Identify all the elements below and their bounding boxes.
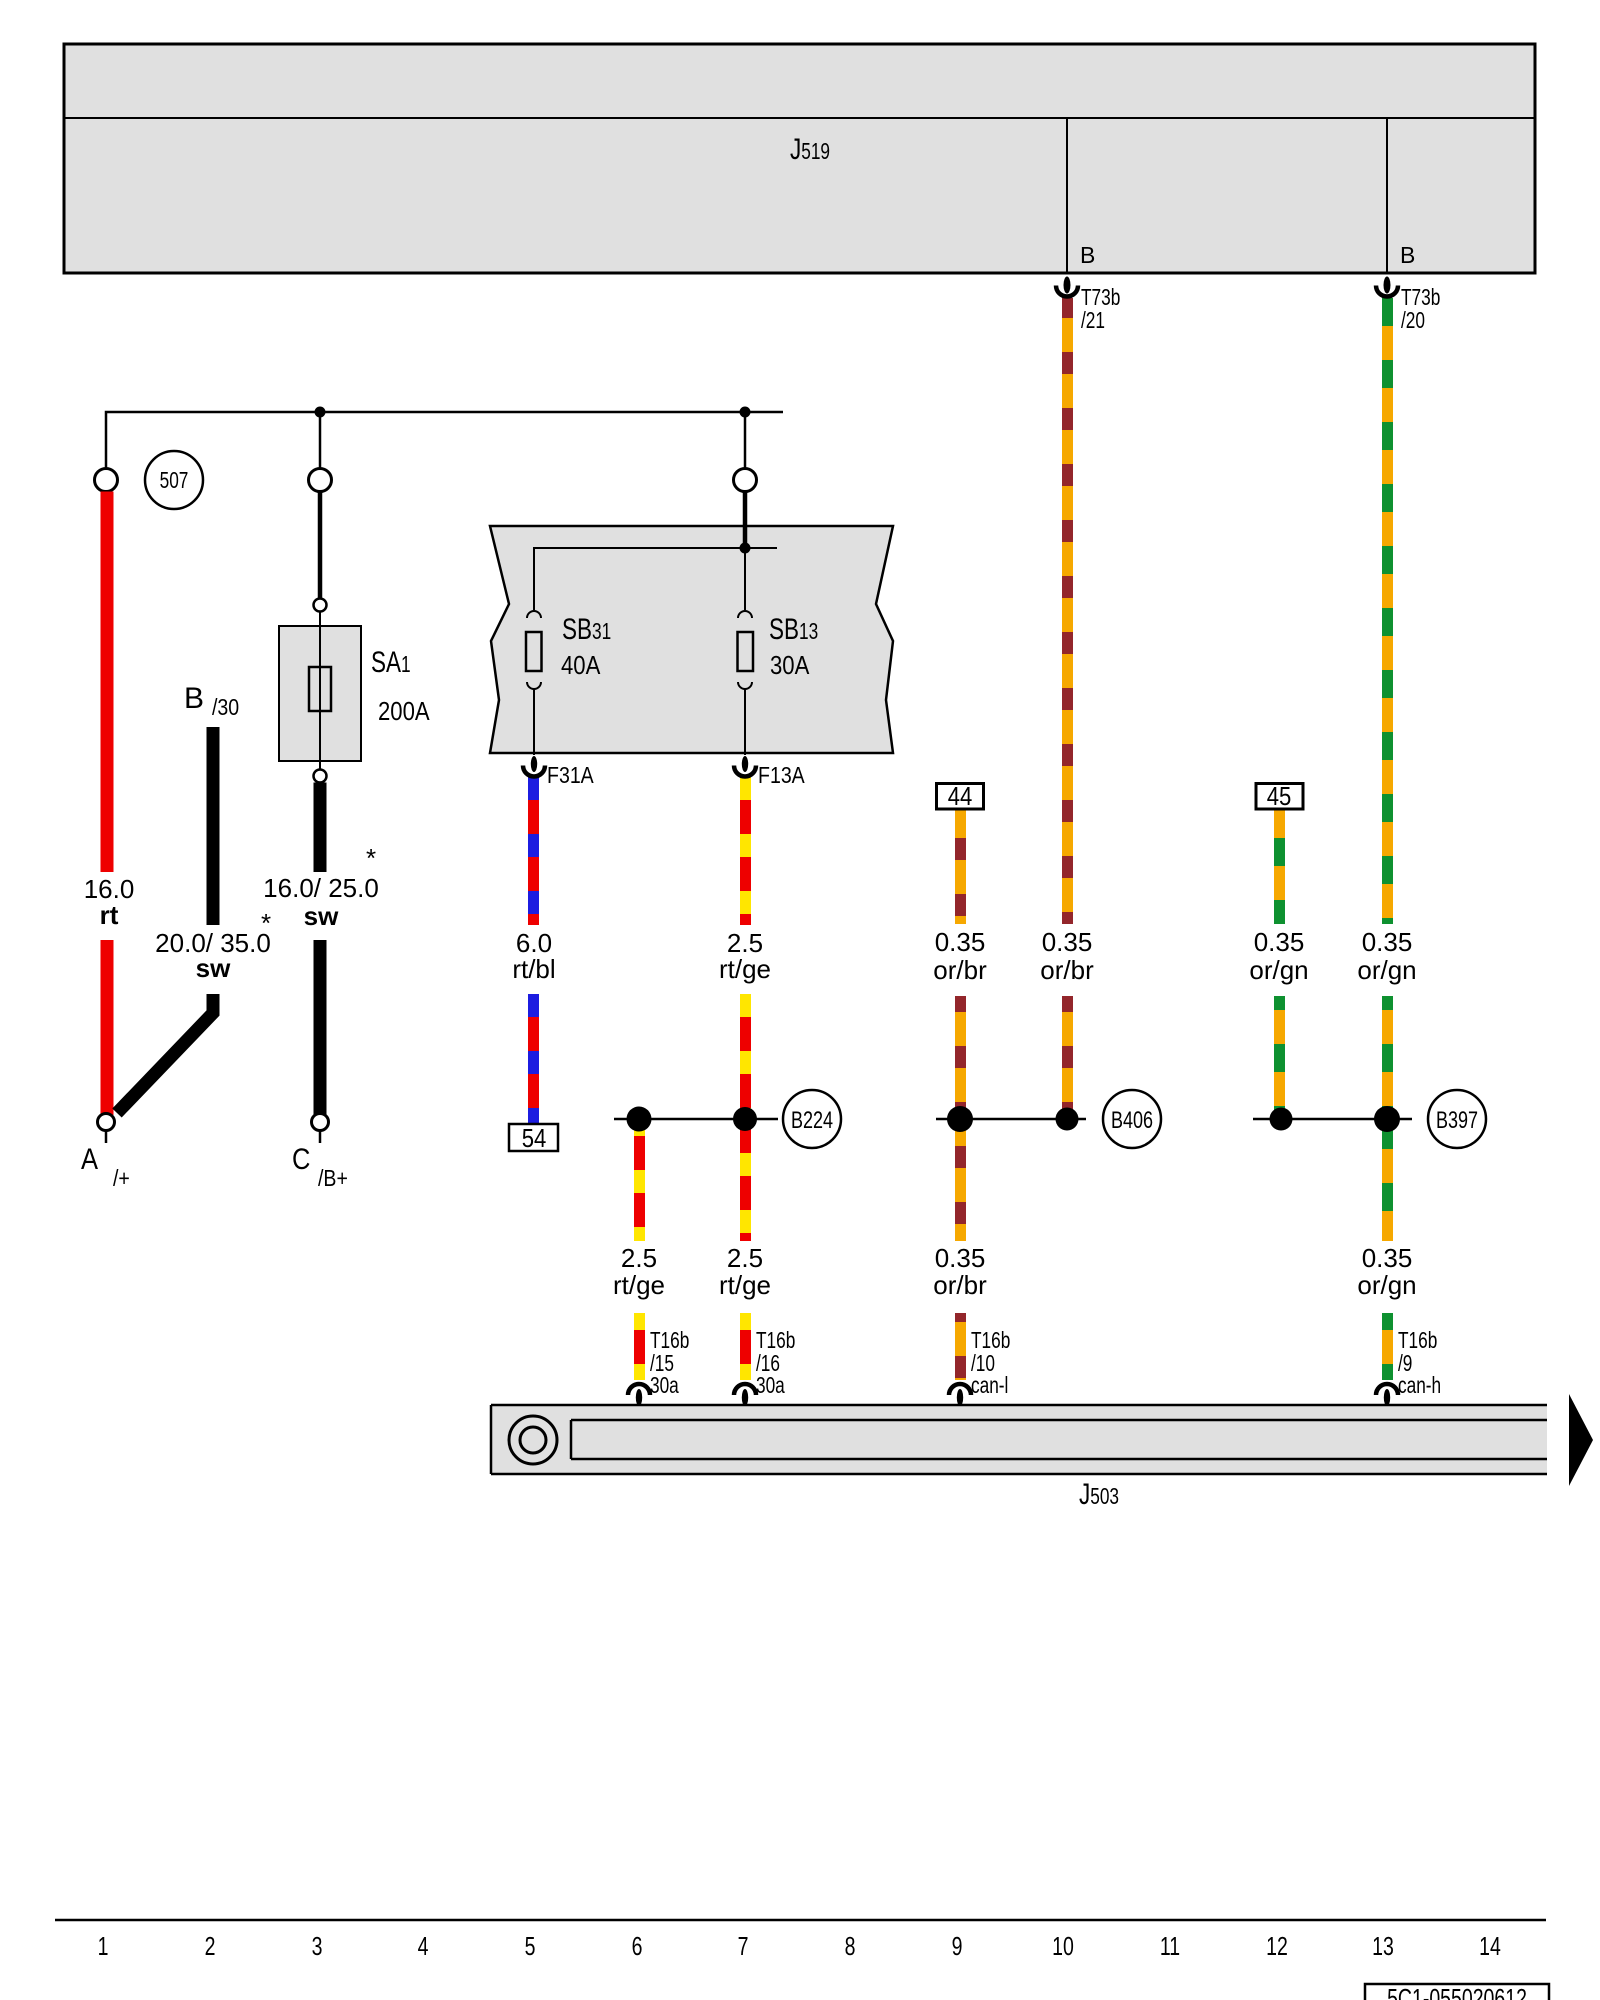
label SB13: [769, 615, 818, 645]
fuse SB13 lower lead: [744, 689, 746, 755]
connector F31A symbol: [531, 756, 537, 772]
wire 0.35 or/br col10 from J519 pin T73b/21: [1062, 298, 1073, 924]
label SA1: [371, 648, 411, 678]
terminal 44 box: [937, 784, 984, 810]
SA1 lower pin circle: [314, 770, 327, 783]
wire 0.35 or/gn col13 bottom segment to J503: [1382, 1313, 1393, 1380]
label F31A: [547, 764, 594, 787]
connector F13A symbol: [742, 756, 748, 772]
label wire 2.5 rt/ge col7: [727, 930, 763, 956]
label T16b/15 30a: [650, 1329, 689, 1352]
wire 16.0 rt lower segment: [101, 940, 114, 1115]
label J503: [1079, 1480, 1119, 1510]
label wire 0.35 or/gn col13 bottom: [1362, 1245, 1413, 1271]
wire 2.5 rt/ge col7 upper segment: [740, 777, 751, 925]
node B224 circle: [783, 1090, 841, 1148]
label B /30: [184, 684, 204, 714]
connector T16b/15 symbol: [628, 1384, 650, 1395]
J519 internal pin line B (left): [1066, 118, 1068, 273]
label wire 0.35 or/gn col13: [1362, 929, 1413, 955]
label wire 6.0 rt/bl: [516, 930, 552, 956]
label wire A gauge: [84, 876, 135, 902]
node B406 dot right: [1056, 1108, 1079, 1131]
fuse SB13 bottom clip: [738, 682, 752, 689]
terminal 45 box: [1256, 784, 1303, 810]
sheet number box: [1365, 1984, 1549, 2000]
node B224 dot left: [627, 1107, 652, 1132]
node B397 dot left: [1270, 1108, 1293, 1131]
wire 0.35 or/br col9 from terminal 44: [955, 809, 966, 924]
wire 16.0/25.0 sw lower segment: [314, 940, 327, 1115]
label T73b/20: [1401, 286, 1440, 309]
sheet number: [1387, 1985, 1527, 2000]
wire 0.35 or/gn col13 from J519 pin T73b/20: [1382, 298, 1393, 924]
fuse SB31 bottom clip: [527, 682, 541, 689]
SB internal feed line: [744, 526, 746, 610]
continuation arrow: [1569, 1394, 1593, 1486]
label wire 0.35 or/gn col12: [1254, 929, 1305, 955]
label F13A: [758, 764, 805, 787]
label wire 2.5 rt/ge col6 bottom: [621, 1245, 657, 1271]
node B397 circle: [1428, 1090, 1486, 1148]
wire 16.0/25.0 sw upper segment: [314, 783, 327, 873]
SB internal bus: [534, 548, 777, 610]
label node B224: [791, 1109, 833, 1133]
fuse SB31 lower lead: [533, 689, 535, 755]
node B224 junction line: [614, 1118, 778, 1121]
label T16b/10 can-l: [971, 1329, 1010, 1352]
wire 6.0 rt/bl upper segment: [528, 777, 539, 925]
junction on bus at col7: [740, 407, 751, 418]
terminal circle col3: [309, 469, 332, 492]
connector T16b/16 symbol: [734, 1384, 756, 1395]
fuse holder SB box: [490, 526, 893, 753]
node B397 dot right: [1374, 1106, 1400, 1132]
wire 2.5 rt/ge col7 below node B224: [740, 1119, 751, 1241]
label wire 2.5 rt/ge col7 bottom: [727, 1245, 763, 1271]
fuse SB31 top clip: [527, 611, 541, 618]
link wire to SA1: [318, 492, 323, 599]
wire 0.35 or/br col9 bottom segment to J503: [955, 1313, 966, 1380]
terminal A circle: [98, 1114, 115, 1131]
label T16b/16 30a: [756, 1329, 795, 1352]
fuse SB13 element: [738, 632, 754, 671]
terminal C circle: [312, 1114, 329, 1131]
SB13 feed thick lead: [743, 492, 748, 549]
stub to terminal circle col3: [319, 412, 322, 468]
J519 internal pin line B (right): [1386, 118, 1388, 273]
label terminal 44: [948, 783, 973, 809]
J503 inner rectangle: [571, 1419, 1547, 1422]
wire 20.0/35.0 sw upper segment: [207, 727, 220, 925]
wire 2.5 rt/ge col6 from node B224: [634, 1119, 645, 1241]
node B406 dot left: [947, 1106, 973, 1132]
label T73b/21: [1081, 286, 1120, 309]
node B224 dot right: [733, 1107, 757, 1131]
label wire 0.35 or/br col9: [935, 929, 986, 955]
connector T16b/10 symbol: [949, 1384, 971, 1395]
node B406 circle: [1103, 1090, 1161, 1148]
SA1 upper pin lead: [319, 612, 321, 627]
connector T73b/21 symbol: [1056, 286, 1078, 297]
label wire B gauge: [155, 930, 271, 956]
wire 0.35 or/gn col12 from terminal 45: [1274, 809, 1285, 924]
ground symbol circle 507: [145, 451, 203, 509]
stub to terminal circle col7: [744, 412, 747, 468]
node B406 junction line: [936, 1118, 1086, 1121]
wire 16.0 rt upper segment: [101, 492, 114, 873]
label 507: [160, 469, 189, 492]
connector T73b/20 symbol: [1376, 286, 1398, 297]
label node B397: [1436, 1109, 1478, 1133]
wire 0.35 or/gn col12 lower segment to node B397: [1274, 996, 1285, 1119]
label SB31: [562, 615, 611, 645]
label terminal 54: [521, 1125, 546, 1151]
wire 0.35 or/gn col13 mid segment to node B397: [1382, 996, 1393, 1119]
connector T16b/9 symbol: [1376, 1384, 1398, 1395]
SA1 upper pin circle: [314, 599, 327, 612]
J503 emblem inner circle: [520, 1427, 546, 1453]
wire 0.35 or/br col9 mid segment to node B406: [955, 996, 966, 1119]
SA1 fuse element: [309, 667, 331, 711]
label B pin left: [1080, 244, 1095, 267]
wire 20.0/35.0 sw lower diagonal segment: [117, 994, 213, 1113]
label wire 0.35 or/br col10: [1042, 929, 1093, 955]
wire 0.35 or/br col10 lower segment to node B406: [1062, 996, 1073, 1119]
J503 emblem outer circle: [509, 1416, 557, 1464]
label B pin right: [1400, 244, 1415, 267]
wire 2.5 rt/ge col6 bottom segment to J503: [634, 1313, 645, 1380]
label node B406: [1111, 1109, 1153, 1133]
wire 6.0 rt/bl lower segment to terminal 54: [528, 994, 539, 1124]
battery bus wire: [106, 412, 783, 469]
label terminal 45: [1267, 783, 1292, 809]
wire 0.35 or/gn col13 below node B397: [1382, 1119, 1393, 1241]
terminal 54 box: [509, 1124, 558, 1151]
wire 2.5 rt/ge col7 bottom segment to J503: [740, 1313, 751, 1380]
terminal A stub: [105, 1131, 108, 1144]
label T16b/9 can-h: [1398, 1329, 1437, 1352]
label terminal A: [81, 1145, 98, 1175]
junction on bus at col3: [315, 407, 326, 418]
bottom grid rule: [55, 1919, 1546, 1922]
control unit J519 box: [64, 44, 1535, 273]
fuse SA1 box: [279, 626, 361, 761]
label terminal C: [292, 1145, 310, 1175]
terminal C stub: [319, 1131, 322, 1144]
fuse SB13 top clip: [738, 611, 752, 618]
label J519: [790, 135, 830, 165]
terminal circle col7: [734, 469, 757, 492]
SA1 internal wire: [319, 626, 321, 770]
grid numbers: [98, 1933, 109, 1959]
junction inside SB box: [740, 543, 751, 554]
control unit J503 box: [491, 1405, 1547, 1474]
label wire C gauge: [263, 875, 379, 901]
fuse SB31 element: [526, 632, 542, 671]
wire 2.5 rt/ge col7 mid segment to node B224: [740, 994, 751, 1119]
J519 inner horizontal line: [64, 117, 1535, 119]
label wire 0.35 or/br col9 bottom: [935, 1245, 986, 1271]
terminal circle col1: [95, 469, 118, 492]
node B397 junction line: [1253, 1118, 1412, 1121]
wire 0.35 or/br col9 below node B406: [955, 1119, 966, 1241]
